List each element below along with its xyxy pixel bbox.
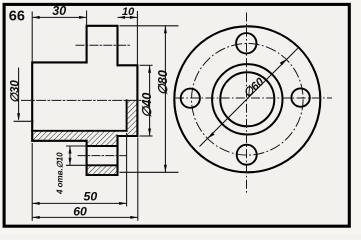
arrow 60 right: [130, 216, 138, 219]
horizontal centerline: [175, 97, 332, 99]
arrow d30 down: [17, 113, 20, 121]
hole top: [236, 33, 256, 53]
dim 10 ext line right: [136, 11, 138, 65]
arrow 30 left: [32, 16, 40, 19]
part outline: [32, 26, 137, 175]
left shared ext line: [31, 143, 33, 221]
dim d30 line: [18, 68, 20, 120]
dim 50 line: [32, 202, 126, 204]
dim 60 ext right: [137, 138, 139, 221]
dim d60 diagonal line: [200, 48, 298, 146]
dim d80 ext top: [120, 25, 179, 27]
bore end wall: [126, 100, 128, 130]
dim 30 ext lines: [31, 12, 33, 63]
arrow d60 lower-left: [208, 132, 215, 138]
main axis centerline: [22, 99, 144, 101]
arrow 10 right: [130, 16, 138, 19]
arrowheads left view: [17, 16, 167, 219]
svg-text:4 отв.∅10: 4 отв.∅10: [55, 152, 64, 195]
svg-text:10: 10: [122, 6, 135, 18]
dim d80 line: [164, 26, 166, 173]
arrow d40 top: [148, 65, 151, 73]
dim d40 ext bottom: [140, 135, 153, 137]
svg-text:60: 60: [73, 205, 87, 219]
dim 60 line: [32, 216, 138, 218]
arrow 50 right: [119, 202, 127, 205]
dim hole ext bottom: [66, 164, 87, 166]
svg-text:∅80: ∅80: [156, 70, 170, 95]
dim 50 ext right: [126, 133, 128, 207]
hatch solid right core: [127, 100, 138, 136]
bore circle d30: [220, 72, 274, 126]
arrow d40 bottom: [148, 129, 151, 137]
bolt circle d60 centerline: [192, 44, 304, 156]
outer circle d80: [174, 26, 320, 172]
arrow d80 bottom: [164, 165, 167, 173]
dim hole d10 line: [69, 146, 71, 165]
hatch band left cylinder section: [32, 131, 86, 141]
arrow 10 left: [118, 16, 126, 19]
dim d30 pointer line: [14, 120, 34, 122]
bore lower wall: [32, 130, 126, 132]
lower bolt hole axis: [78, 155, 126, 157]
dim 30 line: [32, 16, 86, 18]
vertical centerline: [246, 13, 248, 195]
hole bottom: [237, 145, 257, 165]
hub circle d40: [212, 64, 282, 134]
arrow 60 left: [32, 216, 40, 219]
arrow 50 left: [32, 202, 40, 205]
arrow d80 top: [164, 26, 167, 34]
hole right: [291, 88, 309, 106]
dim hole ext top: [66, 145, 87, 147]
svg-text:∅40: ∅40: [140, 93, 154, 118]
dim d40 line: [149, 65, 151, 136]
hatch flange below bolt hole: [87, 165, 118, 175]
svg-text:66: 66: [9, 9, 25, 25]
arrow hole bottom: [69, 158, 72, 166]
arrow hole top: [69, 146, 72, 154]
svg-text:30: 30: [52, 4, 66, 18]
dim 10 line: [118, 16, 138, 18]
upper bolt hole axis: [76, 44, 131, 46]
dim d40 ext top: [140, 64, 153, 66]
bolt hole lower edge bottom: [87, 164, 118, 166]
hatch flange above bolt hole: [87, 131, 118, 146]
svg-text:50: 50: [84, 190, 98, 204]
hole left: [181, 89, 200, 108]
arrow d60 upper-right: [280, 59, 287, 65]
dim d80 ext bottom: [120, 171, 179, 173]
svg-text:∅30: ∅30: [9, 80, 21, 103]
bolt hole lower edge top: [87, 145, 118, 147]
arrow 30 right: [79, 16, 87, 19]
